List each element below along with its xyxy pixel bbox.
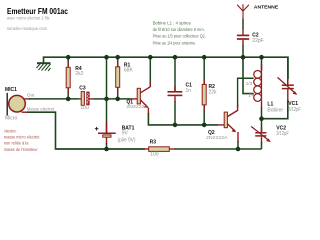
capacitor C1 bbox=[168, 91, 183, 93]
wire: Q1 emitter down and emitter bus bbox=[147, 108, 149, 114]
svg-text:2N2222A: 2N2222A bbox=[206, 135, 229, 140]
svg-text:Bobine L1 : 4 spires: Bobine L1 : 4 spires bbox=[153, 21, 192, 27]
svg-text:MIC1: MIC1 bbox=[5, 87, 17, 93]
junction: +V rail / C1 top bbox=[173, 55, 178, 60]
junction: node mic Out / R4 bottom bbox=[66, 97, 71, 102]
junction: +V rail / C2-antenna branch bbox=[241, 55, 246, 60]
note: coil info (green) bbox=[153, 21, 206, 47]
wire: bottom rail bbox=[56, 148, 146, 150]
wire: Q1 collector branch bbox=[149, 57, 151, 87]
capacitor C3 bbox=[79, 98, 81, 100]
resistor R1 bbox=[116, 67, 120, 88]
svg-text:ANTENNE: ANTENNE bbox=[254, 5, 278, 10]
svg-text:10u: 10u bbox=[80, 105, 89, 111]
svg-text:R3: R3 bbox=[150, 140, 157, 146]
svg-text:sonelec-musique.com: sonelec-musique.com bbox=[7, 26, 47, 32]
svg-text:de fil 8/10 sur diamètre 8 mm.: de fil 8/10 sur diamètre 8 mm. bbox=[153, 27, 205, 33]
svg-text:Prise au 1/4 pour antenne.: Prise au 1/4 pour antenne. bbox=[153, 40, 196, 46]
svg-text:avec micro electret 2 fils: avec micro electret 2 fils bbox=[7, 15, 50, 21]
svg-text:22k: 22k bbox=[209, 89, 218, 95]
svg-text:C3: C3 bbox=[79, 85, 86, 91]
svg-text:1n: 1n bbox=[186, 88, 192, 94]
junction: +V rail / Q1 collector branch bbox=[148, 55, 153, 60]
capacitor C2 bbox=[237, 34, 249, 36]
svg-text:Prise au 1/3 pour collecteur Q: Prise au 1/3 pour collecteur Q2, bbox=[153, 34, 206, 40]
junction: bottom rail / Q2 emitter bbox=[236, 147, 241, 152]
svg-text:3/12pF: 3/12pF bbox=[288, 107, 301, 113]
junction: emitter bus / R2 bottom bbox=[202, 123, 207, 128]
wire: antenna tap riser (1/4) bbox=[243, 57, 254, 93]
wire: L1 bottom to VC1/VC2 node bbox=[261, 107, 263, 119]
resistor R2 bbox=[202, 84, 206, 105]
wire: C1 branch vertical bbox=[174, 57, 176, 91]
wire: R2 branch vertical bbox=[203, 57, 205, 125]
ground bbox=[37, 63, 51, 71]
junction: node L1 bottom / VC1 / VC2 bbox=[259, 116, 264, 121]
resistor R4 bbox=[66, 67, 70, 88]
junction: bottom rail / battery - bbox=[104, 147, 109, 152]
svg-text:non reliée à la: non reliée à la bbox=[4, 141, 29, 147]
junction: +V rail / R2 top bbox=[202, 55, 207, 60]
svg-text:masse de l'émetteur: masse de l'émetteur bbox=[4, 147, 38, 153]
antenna bbox=[237, 4, 249, 19]
wire: Q2 collector riser (1/3) bbox=[238, 78, 254, 107]
wire: battery branch vertical bbox=[106, 57, 108, 133]
junction: +V rail / battery branch bbox=[104, 55, 109, 60]
transistor Q1 bbox=[137, 88, 140, 104]
variable capacitor VC2 bbox=[261, 119, 263, 133]
transistor Q2 bbox=[224, 112, 227, 128]
junction: +V rail / R4 top bbox=[66, 55, 71, 60]
wire: L1 top branch bbox=[261, 57, 263, 70]
inductor L1 bbox=[254, 70, 262, 101]
note: mic warning (red) bbox=[4, 128, 40, 153]
svg-text:2k2: 2k2 bbox=[75, 71, 83, 77]
svg-text:1/3: 1/3 bbox=[246, 81, 253, 86]
wire: R4 branch vertical bbox=[67, 57, 69, 99]
junction: +V rail / R1 top bbox=[115, 55, 120, 60]
svg-text:Masse electret: Masse electret bbox=[27, 106, 55, 111]
junction: +V rail / L1 top bbox=[259, 55, 264, 60]
svg-text:3/12pF: 3/12pF bbox=[276, 131, 289, 137]
svg-text:(pile 9V): (pile 9V) bbox=[118, 137, 136, 143]
svg-text:Out: Out bbox=[27, 92, 35, 97]
svg-text:masse micro electret: masse micro electret bbox=[4, 135, 40, 141]
svg-text:Bobine: Bobine bbox=[267, 107, 283, 113]
junction: node Q1 base / R1 bottom bbox=[115, 97, 120, 102]
wire: mic out bbox=[24, 98, 30, 100]
wire: mic masse bbox=[22, 111, 29, 113]
wire: top rail bbox=[44, 57, 289, 79]
svg-text:2N2222A: 2N2222A bbox=[126, 104, 149, 109]
svg-text:9V: 9V bbox=[122, 130, 129, 136]
svg-text:22pF: 22pF bbox=[252, 38, 263, 44]
svg-text:Attention :: Attention : bbox=[4, 128, 17, 134]
resistor R3 bbox=[149, 147, 170, 152]
svg-text:Emetteur FM 001ac: Emetteur FM 001ac bbox=[7, 7, 69, 16]
wire: node to Q1 base bbox=[107, 98, 132, 100]
junction: emitter bus / C1 bottom bbox=[173, 123, 178, 128]
junction: node Q1 base / battery + bbox=[104, 97, 109, 102]
variable capacitor VC1 bbox=[287, 57, 289, 84]
svg-text:Micro: Micro bbox=[5, 116, 17, 122]
svg-text:68K: 68K bbox=[124, 68, 134, 74]
wire: antenna to C2 bbox=[242, 19, 244, 30]
battery BAT1 bbox=[98, 132, 116, 134]
resistor R4 pins bbox=[67, 62, 69, 68]
wire: R1 branch vertical bbox=[117, 57, 119, 99]
microphone MIC1 bbox=[6, 93, 8, 116]
svg-text:100: 100 bbox=[150, 151, 159, 157]
